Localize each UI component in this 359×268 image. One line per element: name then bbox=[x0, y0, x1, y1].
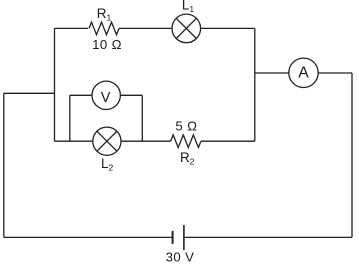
svg-text:5 Ω: 5 Ω bbox=[175, 118, 197, 133]
wire loop top right segment bbox=[120, 94, 142, 96]
resistor R1 bbox=[89, 22, 119, 35]
wire ammeter to right vertical bbox=[318, 72, 352, 74]
wire outer-left vertical bbox=[3, 93, 5, 237]
wire mid vertical to ammeter bbox=[255, 72, 289, 74]
svg-text:30 V: 30 V bbox=[166, 249, 195, 264]
wire mid-right vertical bbox=[254, 28, 256, 141]
wire right vertical bbox=[351, 73, 353, 237]
svg-text:A: A bbox=[298, 65, 309, 82]
voltmeter U1 V bbox=[92, 81, 120, 109]
lamp L1 bbox=[172, 14, 201, 43]
wire R1 to L1 bbox=[119, 27, 172, 29]
battery BT1 positive plate bbox=[183, 225, 185, 250]
ammeter U2 A bbox=[289, 58, 318, 87]
resistor R2 bbox=[171, 135, 201, 148]
wire L1 to mid vertical with corner bbox=[201, 27, 255, 29]
wire bottom left to battery bbox=[4, 236, 173, 238]
wire left vertical bbox=[54, 28, 56, 141]
wire voltmeter loop right vertical bbox=[141, 95, 143, 141]
wire L2 to R2 bbox=[121, 140, 171, 142]
wire top-left horizontal segment bbox=[55, 27, 89, 29]
svg-text:V: V bbox=[101, 90, 111, 106]
wire bottom right to battery bbox=[184, 236, 352, 238]
lamp L2 bbox=[93, 127, 121, 155]
wire voltmeter loop left vertical bbox=[69, 95, 71, 141]
svg-text:10 Ω: 10 Ω bbox=[92, 37, 122, 52]
wire loop top left segment bbox=[70, 94, 92, 96]
wire branch left to L2 bbox=[55, 140, 93, 142]
wire left feed horizontal bbox=[4, 92, 55, 94]
battery BT1 negative plate bbox=[172, 231, 174, 244]
wire R2 to mid vertical bbox=[201, 140, 255, 142]
